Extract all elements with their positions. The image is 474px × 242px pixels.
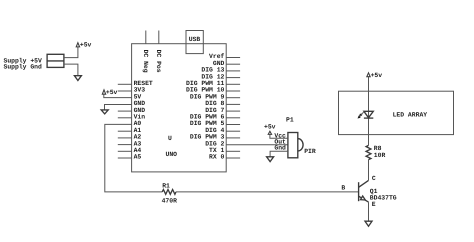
wire +5v to 5V pin [104,94,132,97]
svg-text:DC Neg: DC Neg [142,50,149,73]
pin DIG PWM 10 stub [226,90,240,92]
pin Vin stub [118,117,132,119]
pin TX 1 stub [226,150,240,152]
wire DIG 2 to PIR Out [226,144,288,146]
pin DIG 13 stub [226,70,240,72]
power +5v at 5V pin [102,89,117,96]
wire R1 to Q1 base [176,191,359,193]
ground at PIR Gnd [267,157,274,162]
pin DIG PWM 5 stub [226,124,240,126]
connector J1 supply header [47,54,64,67]
transistor Q1 [359,180,369,202]
svg-text:+5v: +5v [80,42,92,49]
wire +5v to Vcc [270,134,288,138]
pin A5 stub [118,157,132,159]
ground at Q1 emitter [365,221,372,226]
pin A1 stub [118,130,132,132]
wire LED array to R8 [368,135,370,146]
pin A3 stub [118,144,132,146]
pin RESET stub [118,83,132,85]
wire Q1 emitter to ground [368,202,370,221]
svg-text:10R: 10R [374,152,386,159]
svg-text:DC Pos: DC Pos [155,50,162,73]
svg-text:Gnd: Gnd [274,145,286,152]
svg-text:USB: USB [189,36,201,43]
pin DIG 4 stub [226,130,240,132]
svg-text:P1: P1 [286,117,294,124]
svg-text:R8: R8 [374,145,382,152]
ground at GND pin [101,110,108,114]
pin RX 0 stub [226,157,240,159]
wire A0 to R1 [105,124,162,191]
svg-text:RX 0: RX 0 [209,154,225,161]
ground supply [74,76,81,81]
LED emission arrows [358,112,364,118]
pin GND stub [118,110,132,112]
wire +5v to LED array [368,77,370,92]
pin DIG PWM 9 stub [226,97,240,99]
svg-text:Supply Gnd: Supply Gnd [4,64,43,71]
pin DIG PWM 3 stub [226,137,240,139]
svg-text:+5v: +5v [371,72,383,79]
pin DIG PWM 6 stub [226,117,240,119]
sensor P1 PIR body [288,133,303,158]
pin DIG 7 stub [226,110,240,112]
pin labels RESET..A5 [134,80,153,161]
pin DIG 12 stub [226,77,240,79]
pin DC Neg stub [145,31,147,44]
USB connector box [186,31,203,54]
svg-text:B: B [341,185,345,192]
power +5v supply [76,42,91,49]
svg-text:U: U [168,135,172,142]
pin GND stub [226,63,240,65]
svg-text:UNO: UNO [166,151,178,158]
IC U Arduino UNO body [132,44,227,172]
svg-text:R1: R1 [162,182,170,189]
svg-text:PIR: PIR [304,148,316,155]
svg-text:A5: A5 [134,154,142,161]
pin Vref stub [226,57,240,59]
svg-text:+5v: +5v [264,123,276,130]
wire supply +5V pin to power symbol [64,47,78,58]
power +5v at PIR Vcc [264,123,276,134]
svg-text:E: E [372,201,376,208]
LED array box [339,91,454,134]
wire supply gnd pin to ground [64,64,78,76]
svg-text:470R: 470R [162,197,178,204]
resistor R1 [162,190,176,195]
wire R8 to Q1 collector [368,160,370,181]
wire Gnd pin to ground [270,151,288,157]
pin A2 stub [118,137,132,139]
svg-text:+5v: +5v [106,89,118,96]
power +5v at LED array [367,72,382,79]
diode LED symbol [364,91,373,134]
pin DIG 8 stub [226,103,240,105]
pin A4 stub [118,150,132,152]
pin 3V3 stub [118,90,132,92]
pin DIG PWM 11 stub [226,83,240,85]
pin DC Pos stub [158,31,160,44]
svg-text:C: C [372,175,376,182]
wire GND pin to ground [105,105,132,110]
resistor R8 [366,145,371,159]
svg-text:LED ARRAY: LED ARRAY [393,112,428,119]
pin labels Vref..RX 0 [186,53,225,161]
